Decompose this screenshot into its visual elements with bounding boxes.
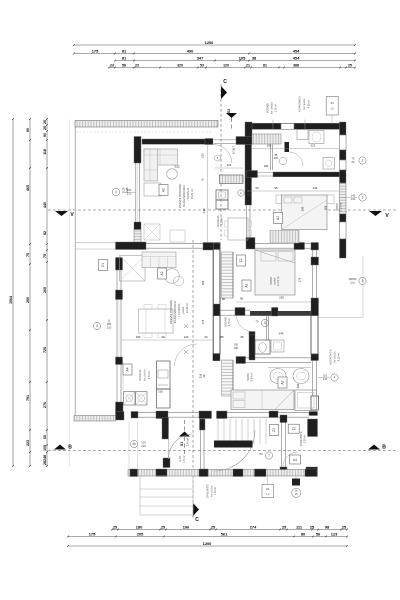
window top right unit xyxy=(281,124,294,130)
wc box2 xyxy=(271,340,284,352)
svg-text:3,08 m²: 3,08 m² xyxy=(221,217,224,226)
svg-text:300: 300 xyxy=(301,206,305,211)
y410 wall thin b xyxy=(168,411,199,413)
left wall pier b xyxy=(116,290,123,300)
svg-text:725: 725 xyxy=(43,347,47,353)
mid wall corner right xyxy=(311,243,319,251)
svg-text:454: 454 xyxy=(293,48,300,53)
svg-text:490: 490 xyxy=(187,48,194,53)
box A2 bed upper xyxy=(274,213,283,224)
kitchen counter top hatched xyxy=(220,175,244,184)
exterior wall top hatched left xyxy=(75,121,218,128)
bed bottom xyxy=(231,390,294,410)
section marker V left xyxy=(55,211,68,216)
svg-text:1,50: 1,50 xyxy=(201,153,205,159)
svg-text:KUPAONICA: KUPAONICA xyxy=(298,96,302,112)
kitchen door arc xyxy=(175,344,197,366)
dimension line top row4 xyxy=(109,67,355,69)
svg-text:791: 791 xyxy=(26,395,30,401)
opening top thin xyxy=(214,139,236,141)
svg-text:210: 210 xyxy=(158,390,163,394)
svg-text:175: 175 xyxy=(201,319,205,324)
right wall pier1 xyxy=(340,122,347,135)
svg-text:S2: S2 xyxy=(227,109,231,113)
svg-text:180/60: 180/60 xyxy=(349,277,357,281)
central wall cap top xyxy=(213,243,220,250)
svg-text:265: 265 xyxy=(43,287,47,293)
left wall pier a xyxy=(116,258,123,271)
svg-text:210: 210 xyxy=(107,326,112,330)
svg-text:KUHINJA: KUHINJA xyxy=(216,215,220,226)
svg-text:23: 23 xyxy=(110,64,114,68)
sideboard xyxy=(170,230,185,242)
svg-text:ULAZ: ULAZ xyxy=(179,455,182,462)
wall y333 small xyxy=(249,332,255,335)
svg-text:1200: 1200 xyxy=(205,40,214,45)
svg-text:SOBA: SOBA xyxy=(269,277,273,285)
circle door party wall xyxy=(238,190,244,196)
box A4 storage xyxy=(290,455,301,464)
right lower window1 xyxy=(312,250,314,258)
section line B-B dashed xyxy=(48,450,396,452)
armchair xyxy=(144,183,161,196)
svg-text:118: 118 xyxy=(43,149,47,155)
svg-text:4b: 4b xyxy=(132,442,136,446)
svg-text:75: 75 xyxy=(352,157,355,161)
round tables xyxy=(165,269,180,284)
svg-text:SOBA: SOBA xyxy=(246,373,250,381)
svg-text:223: 223 xyxy=(26,440,30,446)
y410 wall pier4 xyxy=(199,411,212,419)
svg-text:A2: A2 xyxy=(245,283,249,287)
section marker B right xyxy=(368,445,380,450)
right wall pier2 xyxy=(340,150,347,160)
circle door left lower xyxy=(93,322,100,329)
terrace edge upper-left xyxy=(74,121,76,416)
svg-text:180: 180 xyxy=(264,164,269,168)
bed mid-right xyxy=(255,250,295,295)
side table x xyxy=(144,224,160,240)
dimension line bottom row3 xyxy=(68,545,347,547)
washer dryer xyxy=(124,392,136,406)
svg-text:6: 6 xyxy=(264,321,266,325)
circle entry door xyxy=(130,440,137,447)
svg-text:Z1: Z1 xyxy=(101,263,105,267)
dimension line top row2 xyxy=(74,53,355,55)
svg-text:90: 90 xyxy=(43,133,47,137)
svg-text:A2: A2 xyxy=(281,380,285,384)
svg-text:11,50 m²: 11,50 m² xyxy=(339,202,343,212)
svg-text:95: 95 xyxy=(274,186,278,190)
left wall window c xyxy=(116,365,118,403)
right lower window4 xyxy=(312,361,314,397)
svg-text:85: 85 xyxy=(220,335,224,339)
door arc upper-left xyxy=(213,145,232,164)
svg-text:105: 105 xyxy=(43,445,47,451)
circle window right 5 xyxy=(359,277,366,284)
svg-text:82: 82 xyxy=(43,231,47,235)
entry stair arc xyxy=(214,430,255,471)
svg-text:11,52 m²: 11,52 m² xyxy=(276,276,280,286)
mid wall black right xyxy=(294,243,305,250)
svg-text:465: 465 xyxy=(26,185,30,191)
svg-text:60: 60 xyxy=(352,160,355,164)
svg-text:4,65 m²: 4,65 m² xyxy=(308,100,311,109)
pier upper-left low xyxy=(134,222,141,230)
storage door arc xyxy=(283,452,298,467)
svg-text:308: 308 xyxy=(324,205,328,210)
svg-text:5: 5 xyxy=(362,279,364,283)
box A2 mid-right xyxy=(242,280,251,291)
svg-text:HODNIK: HODNIK xyxy=(224,317,228,327)
svg-text:4: 4 xyxy=(115,190,117,194)
svg-text:123: 123 xyxy=(227,163,232,167)
svg-text:1,50 m²: 1,50 m² xyxy=(275,104,278,113)
svg-text:248: 248 xyxy=(43,455,47,461)
svg-text:90: 90 xyxy=(26,128,30,132)
y410 wall pier3 xyxy=(156,411,168,419)
svg-text:56: 56 xyxy=(122,64,126,68)
right wall pier5 xyxy=(340,239,347,258)
svg-text:parket: parket xyxy=(182,306,185,313)
svg-text:233: 233 xyxy=(313,186,318,190)
svg-text:21: 21 xyxy=(246,64,250,68)
dims misc xyxy=(184,324,188,328)
svg-text:24 36,7: 24 36,7 xyxy=(233,145,236,154)
bath basin2 xyxy=(293,369,309,384)
svg-text:ker. pločice: ker. pločice xyxy=(271,101,274,114)
party wall L cap xyxy=(245,122,252,137)
svg-text:65: 65 xyxy=(43,435,47,439)
section marker B left xyxy=(54,445,66,450)
bath sink unit xyxy=(297,130,308,140)
svg-text:120: 120 xyxy=(184,335,189,339)
storage pier b xyxy=(280,467,287,476)
svg-text:ker. pločice: ker. pločice xyxy=(334,351,337,363)
svg-text:180: 180 xyxy=(136,524,143,529)
svg-text:245: 245 xyxy=(279,332,284,336)
svg-text:7: 7 xyxy=(268,454,270,458)
terrace slab edge lines xyxy=(75,242,115,244)
svg-text:250: 250 xyxy=(26,297,30,303)
washbasin circle xyxy=(279,157,287,165)
wall hatched left low xyxy=(134,230,141,244)
right wall pier4 xyxy=(340,214,347,222)
left wall pier c xyxy=(116,357,123,365)
svg-text:C: C xyxy=(223,79,227,85)
svg-text:B: B xyxy=(68,445,72,451)
y310 wall pier xyxy=(272,308,279,317)
svg-text:155: 155 xyxy=(267,144,272,148)
svg-text:1200: 1200 xyxy=(203,541,212,546)
corner pier upper-left room xyxy=(134,137,141,164)
door arc y310 xyxy=(237,316,253,332)
dining table lower xyxy=(139,309,174,333)
svg-text:5,94 m²: 5,94 m² xyxy=(250,372,254,381)
dimension line bottom row2 xyxy=(68,536,347,538)
svg-text:276: 276 xyxy=(43,402,47,408)
box Z1 top right xyxy=(326,97,338,116)
y410 wall thin d xyxy=(278,411,309,413)
svg-text:3: 3 xyxy=(362,196,364,200)
svg-text:347: 347 xyxy=(197,55,204,60)
svg-text:BLAGOVAONICA: BLAGOVAONICA xyxy=(182,185,186,207)
svg-text:180: 180 xyxy=(234,347,239,350)
svg-text:561: 561 xyxy=(221,531,228,536)
svg-text:60: 60 xyxy=(255,186,259,190)
svg-text:80: 80 xyxy=(260,452,263,456)
y310 corner right xyxy=(311,298,319,316)
svg-text:105: 105 xyxy=(239,55,246,60)
door arc hall xyxy=(289,152,303,166)
window upper-left room xyxy=(135,163,137,222)
central wall cap low xyxy=(213,354,220,361)
circle storage door xyxy=(265,452,272,459)
svg-text:95: 95 xyxy=(240,335,244,339)
right wall window1 xyxy=(340,135,347,150)
dimension line top row3 xyxy=(115,60,355,62)
right lower pier1 xyxy=(311,257,319,265)
bottom wall hatched xyxy=(128,470,318,477)
svg-text:15,81 m²: 15,81 m² xyxy=(190,189,194,199)
section line S1 stub xyxy=(184,420,186,431)
section line C dashed upper xyxy=(220,84,222,240)
svg-text:81: 81 xyxy=(263,64,267,68)
svg-text:4,35 m²: 4,35 m² xyxy=(338,353,341,362)
central wall cap bottom xyxy=(213,304,220,316)
svg-text:75: 75 xyxy=(26,253,30,257)
dimension chain left inner xyxy=(46,119,48,466)
svg-text:255: 255 xyxy=(279,296,284,300)
bottom wall pier6 xyxy=(305,469,317,477)
y410 wall pier1 xyxy=(116,412,125,421)
porch circle label xyxy=(292,488,301,497)
svg-text:2,45 m²: 2,45 m² xyxy=(187,438,190,446)
kitchen counter lower xyxy=(157,361,171,389)
kitchen units xyxy=(216,190,228,200)
svg-text:2,46: 2,46 xyxy=(202,208,206,214)
bed upper-right xyxy=(282,195,328,230)
right lower pier2 xyxy=(311,354,319,361)
svg-text:28: 28 xyxy=(43,461,47,465)
planter lines bottom-left xyxy=(128,422,130,478)
entry stair treads xyxy=(217,419,219,444)
circle window right 2 xyxy=(359,157,366,164)
svg-text:40: 40 xyxy=(204,335,208,339)
svg-text:230: 230 xyxy=(296,383,300,388)
svg-text:140: 140 xyxy=(351,194,356,198)
section marker S1 xyxy=(179,432,190,437)
storage wall thin xyxy=(281,423,283,468)
mid wall black left xyxy=(116,242,147,250)
box A2 upper-left xyxy=(159,185,168,196)
svg-text:4: 4 xyxy=(334,376,336,380)
sofa lower-left xyxy=(142,252,176,268)
svg-text:A2: A2 xyxy=(276,216,280,220)
circle window bath xyxy=(331,374,338,381)
bottom wall pier1 xyxy=(130,469,138,477)
svg-text:4,50 m²: 4,50 m² xyxy=(148,371,151,380)
svg-text:HODNIK: HODNIK xyxy=(266,103,270,114)
bottom wall pier2 xyxy=(156,469,167,477)
y410 wall thin a xyxy=(138,411,156,413)
wc box xyxy=(255,340,270,354)
extension line left xyxy=(69,119,71,466)
svg-text:80: 80 xyxy=(301,531,305,536)
mid wall window right xyxy=(255,242,294,244)
box Z2 storage rot xyxy=(270,425,279,436)
svg-text:205: 205 xyxy=(246,193,251,197)
y310 wall pier b xyxy=(235,308,245,316)
right wall window2 xyxy=(340,160,347,170)
svg-text:111: 111 xyxy=(296,524,303,529)
svg-text:ker. podne: ker. podne xyxy=(303,98,306,110)
divider hodnik soba xyxy=(266,316,268,340)
svg-text:1,30 m²: 1,30 m² xyxy=(183,455,186,463)
svg-text:140: 140 xyxy=(351,197,356,201)
svg-text:275: 275 xyxy=(298,277,302,282)
storage pier a xyxy=(280,415,287,423)
svg-text:274: 274 xyxy=(250,524,257,529)
y410 wall thin c xyxy=(227,411,269,413)
staircase lower xyxy=(222,360,234,396)
box A4 kitchen xyxy=(123,364,132,375)
box A2 sofa lower xyxy=(158,268,167,279)
y410 wall pier5 xyxy=(217,411,228,419)
circle door wc xyxy=(261,319,268,326)
central wall lower xyxy=(213,243,220,316)
divider wall right unit xyxy=(247,171,258,178)
svg-text:2: 2 xyxy=(362,159,364,163)
kitchen wall line xyxy=(206,145,208,243)
svg-text:I KUHINJA: I KUHINJA xyxy=(177,303,181,316)
box A2 bath lower xyxy=(278,377,287,388)
svg-text:388: 388 xyxy=(293,64,299,68)
svg-text:(2x): (2x) xyxy=(350,281,355,285)
section line C dashed lower xyxy=(192,240,194,519)
svg-text:1,20: 1,20 xyxy=(108,319,111,324)
svg-text:Z2: Z2 xyxy=(272,428,276,432)
wc wall vertical xyxy=(249,333,255,360)
party wall lower thin xyxy=(246,205,248,242)
corner seat x xyxy=(120,256,146,282)
svg-text:53: 53 xyxy=(200,64,204,68)
svg-text:196: 196 xyxy=(183,524,190,529)
svg-text:2,46: 2,46 xyxy=(126,187,129,192)
y410 wall pier6 xyxy=(269,411,278,418)
svg-text:A2: A2 xyxy=(162,188,166,192)
dimension line top total 1200 xyxy=(74,44,355,46)
bottom wall pier3 xyxy=(199,469,208,477)
svg-text:A4: A4 xyxy=(293,458,297,462)
svg-text:70: 70 xyxy=(161,335,165,339)
svg-text:Z1: Z1 xyxy=(330,101,334,105)
svg-text:2,70 m²: 2,70 m² xyxy=(228,318,231,327)
svg-text:320: 320 xyxy=(177,64,183,68)
storage right wall xyxy=(309,412,318,416)
section marker V right xyxy=(369,211,382,216)
svg-text:70: 70 xyxy=(256,320,259,324)
top wall cap xyxy=(205,139,213,145)
bath wc xyxy=(309,131,324,144)
svg-text:1,35 m²: 1,35 m² xyxy=(214,487,217,495)
entry pier left bottom xyxy=(163,458,170,468)
pantry lines xyxy=(122,361,124,391)
mid wall thin right xyxy=(305,242,312,244)
mid wall black center xyxy=(203,243,220,251)
svg-text:285: 285 xyxy=(201,280,205,285)
svg-text:4: 4 xyxy=(96,324,98,328)
box Z1 left terrace xyxy=(99,260,108,271)
kitchen counter lower2 xyxy=(157,389,171,408)
entry wall right of C xyxy=(200,419,206,430)
staircase upper xyxy=(222,252,234,298)
y310 wall band xyxy=(250,311,311,316)
party wall vertical black xyxy=(245,145,252,206)
svg-text:20,26 m²: 20,26 m² xyxy=(185,303,189,313)
svg-text:216: 216 xyxy=(199,373,203,378)
terrace edge below right xyxy=(318,317,363,319)
svg-text:23: 23 xyxy=(135,64,139,68)
svg-text:S1: S1 xyxy=(180,442,184,446)
y310 wall thin xyxy=(220,309,235,311)
svg-text:175: 175 xyxy=(92,48,99,53)
bottom wall pier4 xyxy=(233,469,243,477)
box Z1 porch xyxy=(262,485,274,498)
entry wardrobe hatched xyxy=(252,134,281,144)
svg-text:1564: 1564 xyxy=(9,296,13,304)
section marker C bottom xyxy=(193,503,199,516)
svg-text:25: 25 xyxy=(348,64,352,68)
central wall extension xyxy=(213,316,220,355)
left wall window b xyxy=(116,300,118,358)
wardrobe bedroom xyxy=(270,231,299,244)
svg-text:1,35 m²: 1,35 m² xyxy=(304,435,307,444)
mid wall window left xyxy=(146,242,203,244)
svg-text:95: 95 xyxy=(240,297,244,301)
mid wall pier C xyxy=(246,238,255,250)
wall hodnik-kupaonica xyxy=(269,145,271,171)
svg-text:225: 225 xyxy=(141,444,146,448)
section line S2 stub xyxy=(231,118,233,130)
svg-text:220: 220 xyxy=(274,157,279,160)
section line V-V dashed xyxy=(48,209,396,211)
svg-text:75: 75 xyxy=(43,254,47,258)
bottom wall pier5 xyxy=(255,469,267,477)
entry door arc xyxy=(169,434,194,459)
exterior wall top right black xyxy=(251,123,340,129)
right lower door frame xyxy=(311,316,318,355)
svg-text:Z1: Z1 xyxy=(266,487,270,491)
right lower window2 xyxy=(312,265,314,298)
dimension chain left outer 1564 xyxy=(12,119,14,466)
svg-text:A2: A2 xyxy=(160,271,164,275)
svg-text:140: 140 xyxy=(323,377,328,381)
box Z2 storage xyxy=(288,424,299,433)
svg-text:223: 223 xyxy=(311,144,316,148)
circle door upper-left xyxy=(112,188,119,195)
svg-text:454: 454 xyxy=(293,55,300,60)
circle door unit entry xyxy=(215,155,221,161)
left wall pier d xyxy=(116,402,124,413)
right lower cap xyxy=(311,396,319,410)
svg-text:175: 175 xyxy=(89,531,96,536)
svg-text:C: C xyxy=(195,517,199,523)
entry stair bar xyxy=(214,441,253,448)
bath basin1 xyxy=(270,369,286,384)
svg-text:KUPAONICA: KUPAONICA xyxy=(329,349,333,364)
svg-text:3,52: 3,52 xyxy=(174,165,180,169)
